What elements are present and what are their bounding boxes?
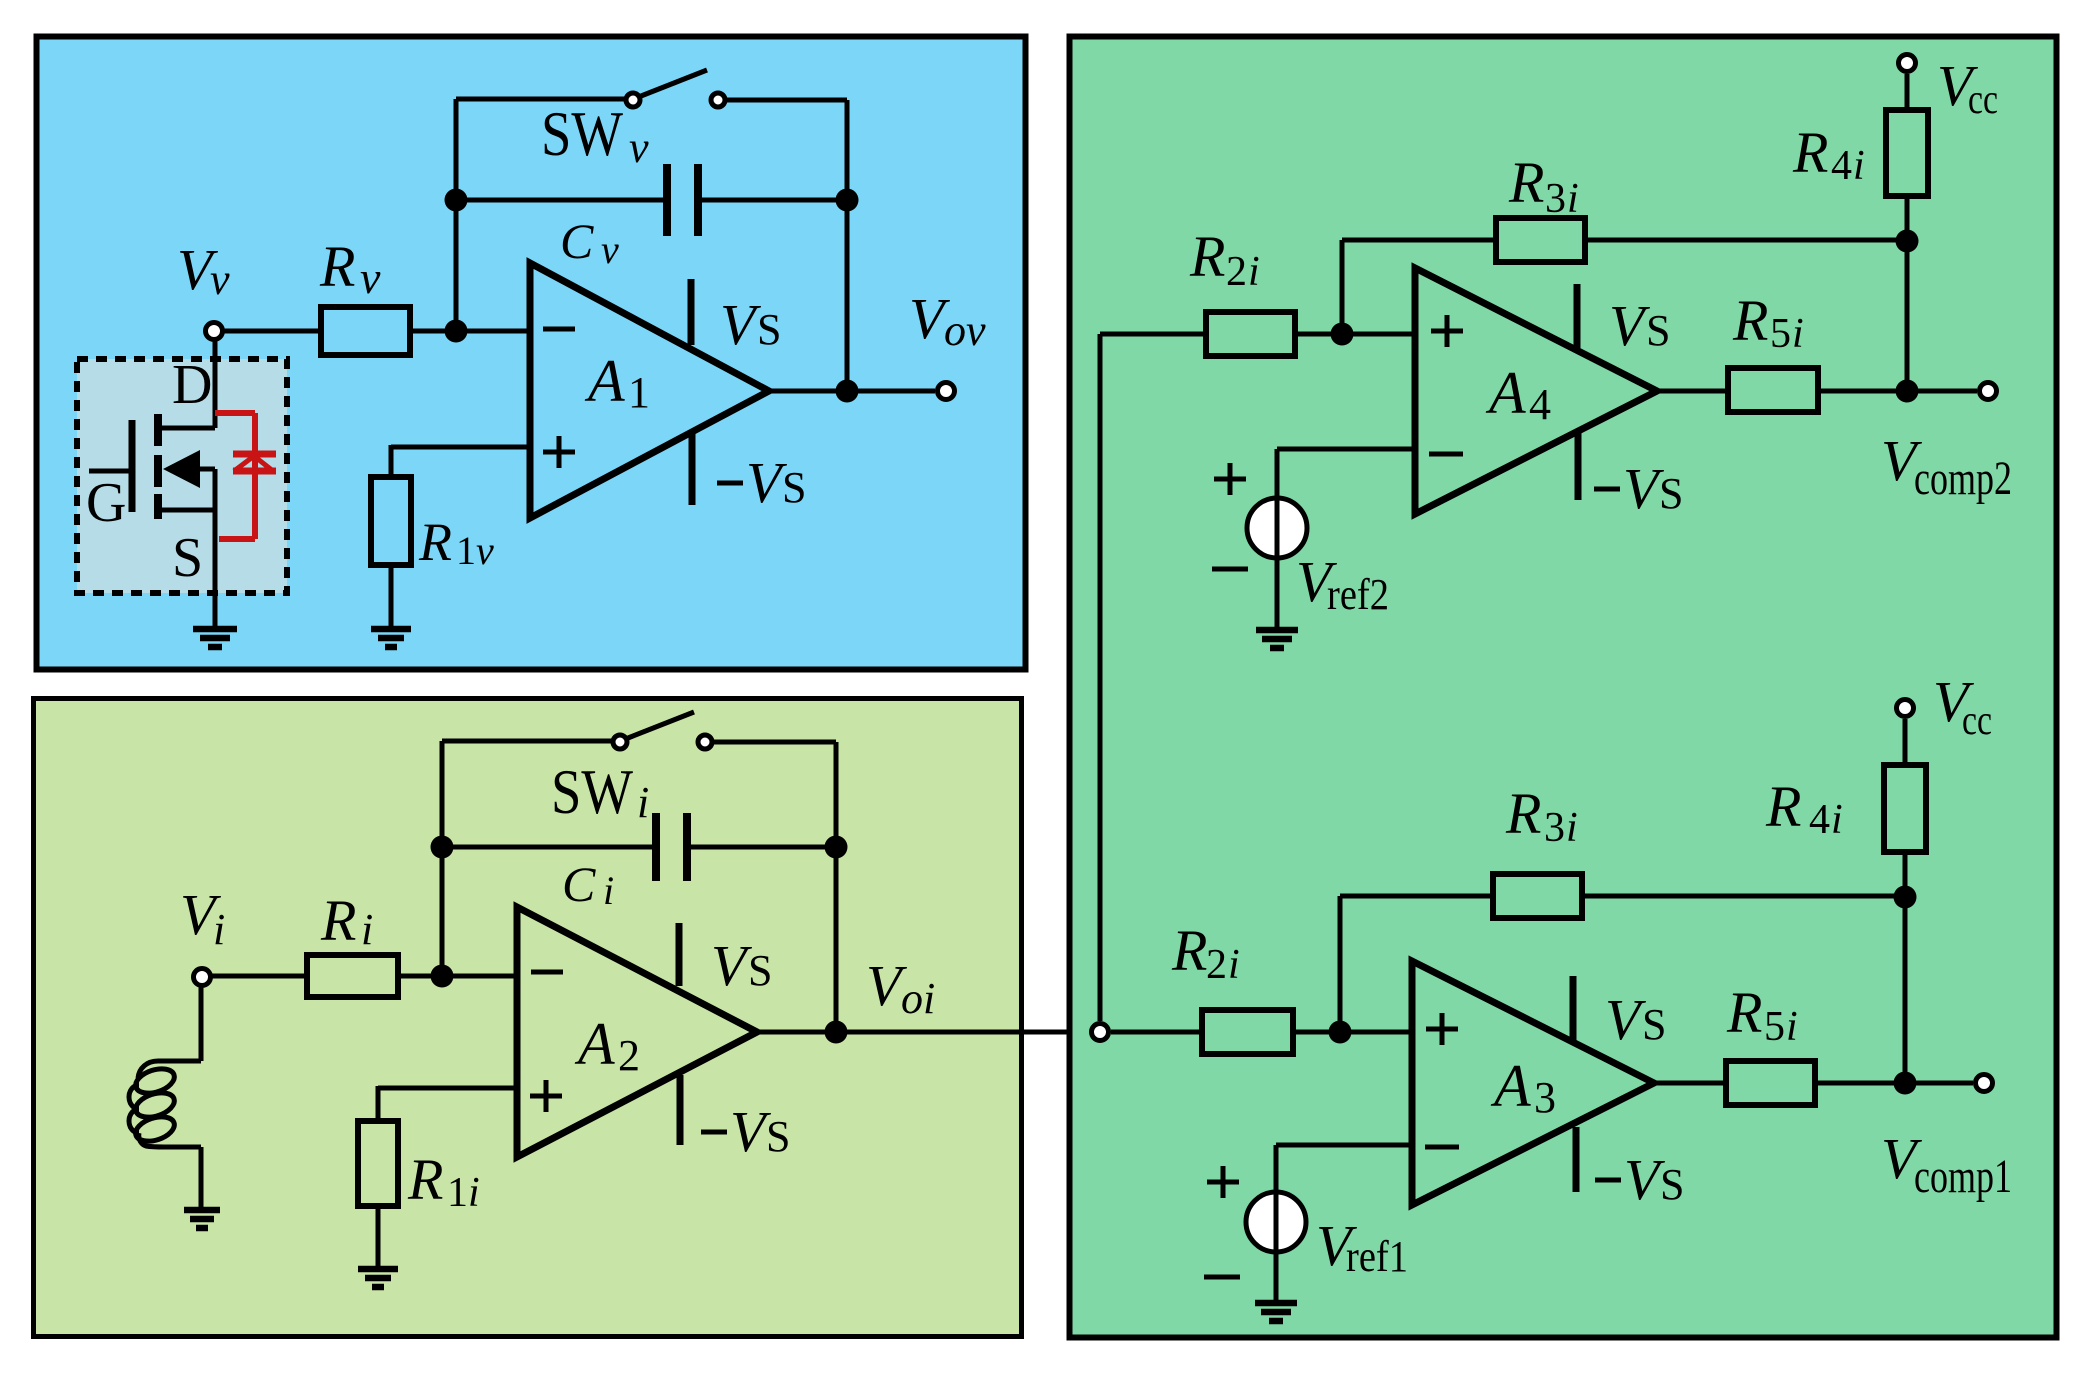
ground under Vref1 [1255,1303,1297,1321]
svg-text:i: i [1792,311,1804,357]
svg-text:i: i [637,778,649,827]
wire R3i to R4i junction [1585,238,1907,243]
ground under inductor [184,1210,220,1228]
svg-text:i: i [1786,1004,1798,1050]
wire A4 output [1657,389,1728,394]
svg-text:R: R [407,1147,443,1212]
svg-text:R: R [1732,288,1768,353]
Vref1 minus sign [1204,1275,1240,1280]
MOSFET Q1 source lead [158,508,215,513]
wire cap row left [456,198,663,203]
wire R5i to Vcomp2 terminal [1818,389,1977,394]
resistor R3i (top) [1496,218,1585,262]
A4 negative supply pin [1575,430,1582,500]
node junction inverting input [445,320,468,343]
body diode D1 cathode bar [233,451,276,458]
svg-text:1: 1 [628,368,650,417]
svg-text:i: i [361,905,373,954]
body diode D1 triangle [234,456,273,471]
A3 VS supply pin [1570,976,1577,1040]
svg-text:2: 2 [1206,942,1227,988]
wire Vcc to R4i (bottom) [1903,719,1908,765]
wire cap row right [691,845,836,850]
svg-text:v: v [210,255,230,304]
svg-text:A: A [574,1011,615,1077]
node junction cap-right [825,836,848,859]
node junction output (top) [1896,380,1919,403]
terminal Vi [194,969,211,986]
svg-text:comp1: comp1 [1914,1150,2012,1203]
wire switch row left [456,97,624,102]
op-amp A2 triangle [517,907,757,1157]
wire Vi down to inductor [199,986,204,1061]
MOSFET Q1 source rail down to ground [213,469,218,626]
ground under R1i [358,1269,398,1287]
svg-text:i: i [1566,805,1578,851]
green panel box [1070,37,2057,1338]
svg-text:v: v [601,227,619,272]
MOSFET Q1 drain lead [158,426,215,431]
svg-text:S: S [1660,1160,1684,1209]
terminal Vov [938,383,955,400]
svg-text:2: 2 [1226,249,1247,295]
wire feedback rail up (bottom) [1338,896,1343,1032]
switch SWv left contact [626,93,640,107]
svg-text:R: R [1765,774,1801,839]
switch SWv lever [641,70,707,96]
svg-text:R: R [320,888,356,953]
svg-text:S: S [766,1112,790,1161]
wire feedback row to R3i (bottom) [1340,894,1493,899]
body diode D1 red bottom wire [219,536,255,542]
switch SWi right contact [698,735,712,749]
blue panel box [37,37,1026,670]
node junction output [825,1021,848,1044]
svg-text:R: R [418,512,452,572]
op-amp A3 triangle [1412,961,1654,1205]
MOSFET Q1 body lead [196,467,215,472]
label -VS (A4) [1594,487,1620,492]
svg-text:S: S [757,305,781,354]
switch SWi left contact [613,735,627,749]
inductor Li coil loop 3 [133,1112,178,1145]
label -VS [717,481,743,486]
ground under MOSFET source [193,629,237,647]
svg-text:R: R [1508,150,1544,215]
resistor R4i (top) [1886,110,1928,196]
wire R1v to ground [389,565,394,626]
wire corner down to R1i [376,1086,381,1121]
MOSFET Q1 body arrow [163,450,200,488]
wire down to Vref1 and ground [1274,1145,1279,1303]
op-amp A4 triangle [1415,268,1657,514]
capacitor Cv plates [667,164,698,236]
svg-text:A: A [1490,1053,1531,1119]
wire Vi to Ri (inverting input row) [212,974,307,979]
A2 VS supply pin [676,923,683,986]
node junction cap-right [836,189,859,212]
A4 plus input sign [1431,315,1463,347]
inductor Li coil loop 1 [133,1064,178,1097]
Vref1 plus sign [1207,1166,1239,1198]
wire R2i to A4 plus input [1295,332,1417,337]
node junction A4 input [1331,323,1354,346]
A4 VS supply pin [1574,284,1581,348]
terminal Vcc (top) [1899,55,1916,72]
resistor R1v [371,477,411,565]
wire down to Vref2 and ground [1275,449,1280,629]
A1 plus input sign [543,436,575,468]
wire cap row right [702,198,847,203]
wire A3 output [1654,1081,1726,1086]
svg-text:cc: cc [1968,77,1998,123]
svg-text:A: A [584,348,625,414]
MOSFET dashed enclosure box [77,359,287,593]
wire cap row left [442,845,652,850]
svg-text:i: i [1248,249,1260,295]
svg-text:5: 5 [1770,311,1791,357]
wire non-inverting input row [391,445,532,450]
wire Vv to Rv (inverting input row) [223,329,321,334]
svg-text:i: i [1228,942,1240,988]
wire switch row right [727,98,847,103]
light green panel box [34,699,1022,1337]
wire feedback rail up [1340,240,1345,334]
wire switch row right [714,740,836,745]
svg-text:v: v [360,252,381,303]
wire vertical rail from Voi node to top comparator [1098,334,1103,1021]
resistor Rv [321,307,410,355]
A2 plus input sign [530,1080,562,1112]
svg-text:A: A [1485,360,1526,426]
svg-text:S: S [1659,469,1683,518]
wire Voi node to bottom R2i [1111,1030,1202,1035]
body diode D1 red vertical wire [252,413,258,539]
wire R1i to ground [376,1206,381,1268]
LGREEN PANEL GROUP [34,699,1090,1337]
wire A2 output to Voi [757,1030,1089,1035]
svg-text:3: 3 [1544,805,1565,851]
ground under R1v [371,629,411,647]
svg-text:4: 4 [1831,143,1852,189]
A3 plus input sign [1426,1013,1458,1045]
wire right feedback rail [834,742,839,1032]
svg-text:SW: SW [541,99,623,169]
svg-text:i: i [1831,797,1843,843]
resistor R4i (bottom) [1884,765,1926,852]
node junction inverting input [431,965,454,988]
label -VS (A3) [1595,1178,1621,1183]
svg-text:v: v [476,528,494,573]
svg-text:comp2: comp2 [1914,452,2012,505]
svg-text:4: 4 [1809,797,1830,843]
terminal Vcc (bottom) [1897,700,1914,717]
A3 negative supply pin [1573,1127,1580,1192]
svg-text:ref1: ref1 [1346,1232,1408,1281]
wire through Vref1 [1274,1192,1279,1252]
wire inductor to ground [199,1147,204,1209]
body diode D1 anode bar [233,468,276,475]
svg-text:R: R [319,234,355,299]
wire A1 output [769,389,935,394]
svg-text:1: 1 [447,1170,468,1216]
svg-text:i: i [468,1170,480,1216]
resistor R2i (bottom) [1202,1010,1293,1054]
A1 VS supply pin [688,279,695,345]
svg-text:C: C [562,856,596,912]
Vref2 minus sign [1212,567,1248,572]
svg-text:1: 1 [456,528,476,573]
svg-text:2: 2 [618,1031,640,1080]
node junction cap-left [445,189,468,212]
svg-text:R: R [1792,120,1828,185]
svg-text:R: R [1171,918,1207,983]
Vref2 plus sign [1214,463,1246,495]
ground under Vref2 [1256,630,1298,648]
node junction output (bottom) [1894,1072,1917,1095]
svg-text:5: 5 [1764,1004,1785,1050]
resistor R2i (top) [1206,312,1295,356]
inductor Li left arc 2 [129,1109,139,1133]
svg-text:S: S [172,527,203,589]
svg-text:cc: cc [1962,698,1992,744]
wire non-inverting input row [378,1086,519,1091]
body diode D1 red top wire [215,410,255,416]
svg-text:i: i [603,868,614,913]
resistor R1i [358,1121,398,1206]
wire left feedback rail [440,741,445,976]
svg-text:D: D [172,354,212,416]
capacitor Ci plates [656,813,687,881]
wire through Vref2 [1275,498,1280,558]
svg-text:SW: SW [551,757,633,827]
GREEN PANEL GROUP [1070,37,2057,1338]
wire Vv down to MOSFET drain [213,340,218,428]
node junction output [836,380,859,403]
op-amp A1 triangle [530,263,769,518]
wire Vcc to R4i [1905,74,1910,110]
svg-text:S: S [1646,306,1670,355]
svg-text:S: S [782,463,806,512]
wire right feedback rail [845,100,850,391]
node junction feedback/R4i (bottom) [1894,886,1917,909]
svg-text:oi: oi [901,974,935,1023]
node junction cap-left [431,836,454,859]
svg-text:R: R [1726,980,1762,1045]
wire top input row to R2i [1100,332,1206,337]
svg-text:C: C [560,213,594,269]
A4 minus input sign [1429,452,1463,457]
node junction feedback/R4i [1896,230,1919,253]
svg-text:S: S [748,946,772,995]
inductor Li left arc 1 [129,1085,139,1109]
svg-text:ref2: ref2 [1327,570,1389,619]
svg-text:S: S [1642,1000,1666,1049]
svg-text:i: i [1567,176,1579,222]
source Vref2 circle [1247,498,1307,558]
svg-text:i: i [1853,143,1865,189]
A2 minus input sign [531,970,563,975]
A1 negative supply pin [689,434,696,505]
svg-text:R: R [1505,781,1541,846]
svg-text:ov: ov [944,306,986,355]
wire R5i to Vcomp1 terminal [1815,1081,1973,1086]
inductor Li entry hook [138,1061,201,1078]
wire switch row left [442,739,611,744]
terminal Vcomp1 [1976,1075,1993,1092]
wire Ri to inverting junction to A2 [398,974,519,979]
wire feedback row to R3i [1342,238,1496,243]
wire R4i down to output junction (bottom) [1903,852,1908,1083]
node junction A3 input [1329,1021,1352,1044]
inductor Li coil loop 2 [133,1088,178,1121]
wire A4 minus input row [1277,447,1417,452]
A3 minus input sign [1425,1145,1459,1150]
terminal Vcomp2 [1980,383,1997,400]
label -VS [701,1130,727,1135]
svg-text:G: G [86,472,126,534]
A2 negative supply pin [677,1075,684,1145]
svg-text:3: 3 [1545,176,1566,222]
resistor Ri [307,955,398,997]
wire R4i down to output junction [1905,196,1910,391]
wire bottom input row R2i to A3 [1293,1030,1414,1035]
inductor Li exit hook [139,1133,201,1147]
source Vref1 circle [1246,1192,1306,1252]
MOSFET Q1 channel bar dashes [154,414,162,519]
resistor R5i (bottom) [1726,1061,1815,1105]
wire Rv to inverting junction to A1 [410,329,532,334]
wire left feedback rail [454,99,459,331]
terminal Vv [206,323,223,340]
MOSFET Q1 gate bar [129,420,136,512]
resistor R5i (top) [1728,368,1818,412]
svg-text:i: i [213,905,225,954]
terminal Voi input node [1092,1024,1109,1041]
resistor R3i (bottom) [1493,874,1582,918]
wire A3 minus input row [1276,1143,1414,1148]
svg-text:4: 4 [1529,380,1551,429]
wire R3i to R4i junction (bottom) [1582,894,1905,899]
svg-text:3: 3 [1534,1073,1556,1122]
switch SWv right contact [711,93,725,107]
A1 minus input sign [543,327,575,332]
svg-text:v: v [629,123,649,172]
switch SWi lever [628,712,694,738]
BLUE PANEL GROUP [37,37,1026,670]
svg-text:R: R [1189,224,1225,289]
MOSFET Q1 gate lead [89,469,129,474]
wire corner down to R1v [389,445,394,477]
